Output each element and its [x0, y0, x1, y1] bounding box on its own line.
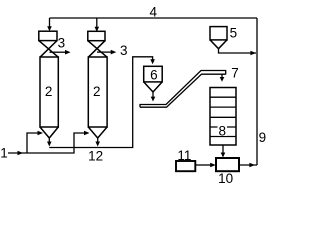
outlet wire 6 [152, 92, 154, 97]
svg-text:7: 7 [231, 65, 239, 80]
sieve tower 8 outline [210, 88, 236, 146]
conveyor 7 lower belt line [140, 74, 226, 107]
rotary valve 3a bowtie [39, 41, 59, 58]
box 11 [176, 161, 195, 171]
arrowhead into hopper 3b [95, 27, 100, 32]
wire 10 to line 9 [239, 164, 257, 166]
conveyor 7 upper belt line [140, 71, 226, 108]
wire: drop from line 4 into hopper 3a [49, 18, 51, 27]
vent arrow 3a [50, 51, 66, 53]
svg-text:2: 2 [93, 84, 101, 99]
outlet wire 8 to 10 [222, 145, 224, 153]
wire: riser line 9 [256, 18, 258, 165]
conveyor discharge wire [221, 75, 223, 78]
svg-text:3: 3 [120, 43, 128, 58]
svg-text:6: 6 [150, 67, 158, 82]
column 2b body [88, 57, 107, 127]
outlet arrowhead 6 [151, 97, 156, 102]
wire: feed branch to column 2a [27, 133, 38, 153]
arrowhead into cone 2b [84, 131, 90, 136]
feeder hopper 6 rect [144, 66, 163, 82]
outlet wire 2a [48, 138, 50, 142]
label 8 knockout [218, 124, 228, 136]
outlet arrowhead 2b [95, 142, 100, 147]
svg-text:9: 9 [259, 130, 267, 145]
feeder hopper 6 funnel [144, 82, 163, 92]
column 2a body [40, 57, 58, 127]
vent arrow 3b [97, 51, 111, 53]
feed arrowhead on line 1 [18, 151, 24, 156]
storage hopper 5 funnel [210, 40, 227, 49]
svg-text:5: 5 [230, 26, 238, 41]
cone bottom 2b [88, 127, 107, 138]
svg-text:11: 11 [177, 148, 191, 163]
arrowhead into box 10 [221, 153, 226, 158]
wire: recycle header line 4 [50, 17, 258, 19]
wire: discharge header 12 to feeder 6 [49, 57, 152, 148]
outlet arrowhead 2a [47, 142, 52, 147]
svg-text:12: 12 [88, 149, 103, 164]
arrowhead 10 to line 9 [249, 163, 255, 168]
wire: feed line from 1 [8, 133, 85, 153]
svg-text:3: 3 [58, 35, 66, 50]
wire: hopper 5 outlet to line 9 [219, 49, 257, 53]
wire 11 to 10 [195, 164, 211, 166]
conveyor discharge arrowhead [220, 77, 225, 82]
vent arrowhead 3b [111, 50, 117, 55]
hopper 3a top rect [39, 31, 57, 40]
cone bottom 2a [40, 127, 58, 138]
svg-text:4: 4 [149, 5, 157, 20]
svg-text:2: 2 [45, 84, 53, 99]
vent arrowhead 3a [65, 50, 71, 55]
rotary valve 3b bowtie [88, 41, 107, 58]
outlet wire 2b [97, 138, 99, 142]
hopper 3b top rect [88, 31, 105, 40]
arrowhead into feeder 6 [150, 59, 155, 64]
wire: drop from line 4 into hopper 3b [96, 18, 98, 28]
svg-text:1: 1 [0, 146, 8, 161]
storage hopper 5 rect [210, 27, 227, 40]
sieve tower 8 dividers [210, 97, 236, 136]
box 10 [216, 158, 239, 171]
svg-text:8: 8 [219, 123, 227, 138]
arrowhead 11 to 10 [210, 163, 216, 168]
arrowhead into hopper 3a [47, 26, 52, 31]
arrowhead into cone 2a [38, 131, 44, 136]
arrowhead into line 9 from hopper 5 [250, 51, 256, 56]
svg-text:10: 10 [218, 171, 233, 184]
